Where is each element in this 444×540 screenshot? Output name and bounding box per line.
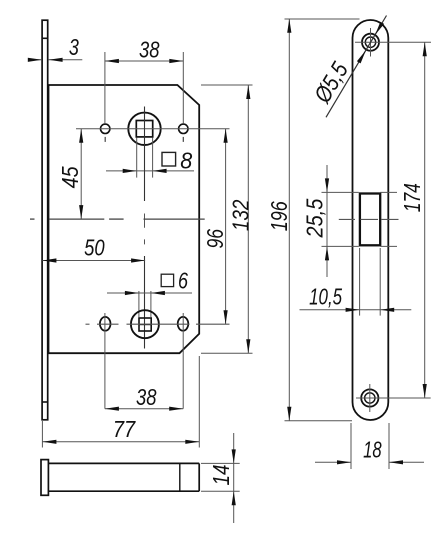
svg-text:18: 18	[363, 436, 382, 462]
svg-text:96: 96	[202, 228, 228, 248]
svg-text:14: 14	[208, 465, 234, 486]
svg-text:174: 174	[399, 183, 425, 212]
svg-text:6: 6	[178, 268, 189, 294]
svg-text:77: 77	[113, 416, 136, 442]
svg-text:132: 132	[228, 200, 254, 232]
svg-text:10,5: 10,5	[309, 284, 343, 310]
svg-text:3: 3	[69, 34, 79, 60]
svg-text:50: 50	[84, 234, 105, 260]
svg-text:25,5: 25,5	[302, 198, 328, 238]
svg-text:45: 45	[57, 166, 83, 189]
svg-text:196: 196	[266, 201, 292, 232]
svg-text:8: 8	[180, 147, 192, 173]
svg-text:38: 38	[139, 36, 160, 62]
svg-text:38: 38	[136, 384, 157, 410]
